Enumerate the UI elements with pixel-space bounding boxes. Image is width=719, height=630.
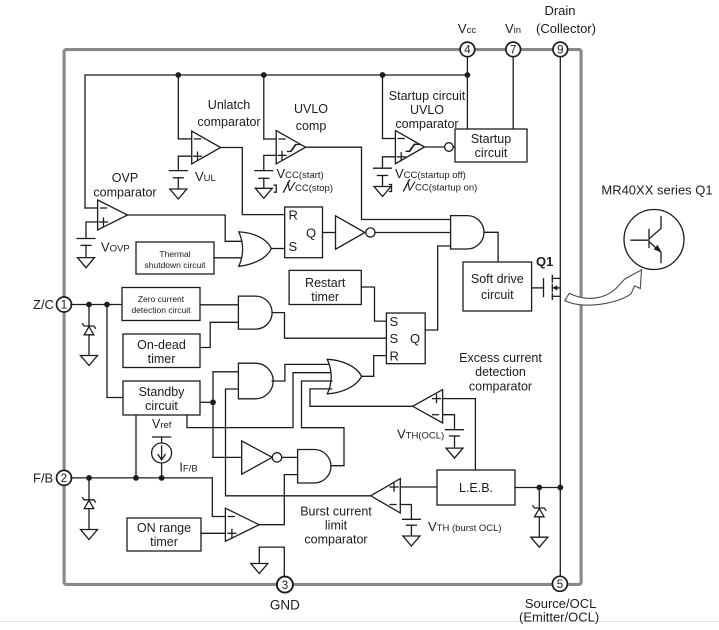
svg-text:GND: GND [270, 598, 300, 613]
wire F/B line [71, 477, 212, 479]
inverter NOT2 [242, 441, 282, 474]
and-gate AND2 [238, 363, 273, 399]
svg-text:Source/OCL: Source/OCL [525, 596, 597, 611]
svg-text:S: S [390, 331, 399, 346]
svg-text:comparator: comparator [93, 186, 156, 200]
junction F/B current source [159, 475, 165, 481]
comparator U-unlatch [178, 75, 260, 171]
zero current detection circuit block [122, 288, 200, 321]
label burst current limit comparator [300, 505, 372, 547]
svg-text:Q1: Q1 [536, 254, 553, 269]
wire latch1 Q to NOT1 [323, 232, 336, 234]
thermal shutdown circuit block [136, 242, 214, 274]
and-gate AND4 [451, 216, 484, 249]
wire LEB output to source line [515, 487, 560, 489]
svg-text:Vref: Vref [152, 417, 172, 431]
svg-text:2: 2 [61, 473, 67, 485]
wire zero current output to AND1 [200, 304, 238, 306]
wire AND4 output to soft drive [484, 232, 498, 262]
page edge artifact line [0, 621, 719, 623]
svg-text:Z/C: Z/C [33, 297, 54, 312]
svg-text:Q: Q [306, 225, 316, 240]
svg-text:timer: timer [148, 352, 176, 366]
svg-text:Soft drive: Soft drive [471, 272, 524, 286]
junction bus-unlatch [175, 72, 181, 78]
junction LEB zener [536, 485, 542, 491]
ground under VTH(burst) [403, 536, 420, 546]
svg-text:(Emitter/OCL): (Emitter/OCL) [519, 610, 599, 625]
svg-text:F/B: F/B [33, 470, 53, 485]
ground under VTH(OCL) [446, 448, 463, 458]
pin 3 GND [270, 577, 300, 613]
comparator U-excess (left pointing) [413, 390, 443, 423]
wire OVP output to OR1 input1 [128, 215, 243, 241]
standby circuit block [123, 381, 200, 415]
external transistor circle [624, 210, 684, 270]
ground under VCC(startup off) [374, 187, 391, 197]
svg-text:UVLO: UVLO [294, 102, 328, 116]
comparator U-burst (left pointing) [371, 479, 401, 513]
svg-text:comparator: comparator [469, 380, 532, 394]
svg-text:Zero current: Zero current [138, 294, 185, 304]
svg-text:timer: timer [311, 290, 339, 304]
svg-text:Standby: Standby [139, 385, 186, 399]
wire standby node vertical to AND2 and NOT2 [212, 372, 214, 458]
label VCC(startup on) [390, 179, 478, 194]
wire pin7 stem [512, 55, 514, 129]
wire to AND2 input1 [213, 371, 238, 373]
wire OR2 output to latch2 R [362, 356, 387, 377]
svg-text:Unlatch: Unlatch [208, 98, 250, 112]
wire excess plus to LEB top [443, 399, 476, 470]
pin 4 Vcc [458, 21, 476, 57]
junction bus-startup-comp [380, 72, 386, 78]
latch U-latch1 [285, 207, 323, 258]
junction source line [557, 485, 563, 491]
zener diode on Z/C [83, 305, 96, 356]
svg-text:Burst current: Burst current [300, 505, 372, 519]
svg-text:Q: Q [410, 331, 420, 346]
ground under source zener [531, 537, 548, 547]
reference VTH(OCL) battery [446, 430, 464, 448]
svg-text:Restart: Restart [305, 276, 346, 290]
svg-text:comp: comp [296, 119, 327, 133]
svg-text:R: R [289, 208, 298, 223]
and-gate AND1 [238, 296, 272, 329]
svg-text:circuit: circuit [481, 288, 514, 302]
svg-text:Drain: Drain [544, 3, 575, 18]
wire burst comparator minus to VTH [400, 505, 411, 520]
svg-text:timer: timer [150, 535, 178, 549]
wire drain-source line pin9 to pin5 [559, 55, 561, 577]
current source IF/B [152, 437, 172, 478]
svg-text:circuit: circuit [475, 146, 508, 160]
wire standby output node [200, 401, 213, 403]
wire latch2 Q to AND4 input3 [425, 246, 450, 330]
svg-text:comparator: comparator [197, 115, 260, 129]
wire Vcc top bus [85, 75, 467, 208]
latch U-latch2 [386, 313, 425, 364]
wire restart output to latch2 S1 [361, 287, 386, 321]
svg-text:S: S [289, 239, 298, 254]
svg-text:4: 4 [464, 45, 471, 57]
wire NOT1 output to AND4 input2 [375, 232, 451, 234]
wire F/B to burst ON comparator minus [212, 478, 225, 517]
svg-text:1: 1 [61, 300, 67, 312]
svg-text:UVLO: UVLO [410, 103, 444, 117]
ground under Z/C zener [81, 356, 98, 366]
reference VTH(burst) battery [403, 519, 421, 536]
svg-text:detection: detection [475, 365, 526, 379]
wire OR1 output to latch1 S [271, 248, 284, 250]
IC package border [64, 50, 581, 585]
wire NOT2 output to AND3 input1 [282, 456, 298, 458]
reference VCC(startup off) battery [374, 168, 392, 186]
svg-text:MR40XX series Q1: MR40XX series Q1 [601, 183, 712, 198]
ground under VCC(start) [255, 188, 272, 198]
svg-text:limit: limit [325, 519, 348, 533]
and-gate AND3 [298, 450, 331, 484]
wire onrange output to AND3 input2 [259, 475, 298, 525]
restart timer block [289, 270, 361, 304]
svg-text:Startup circuit: Startup circuit [389, 89, 466, 103]
junction standby output [210, 399, 216, 405]
on-dead timer block [123, 334, 200, 368]
svg-text:L.E.B.: L.E.B. [459, 481, 493, 495]
junction F/B zener [86, 475, 92, 481]
wire ON range timer to comparator plus [201, 532, 225, 534]
pin 1 Z/C [33, 297, 72, 312]
svg-text:S: S [390, 314, 399, 329]
svg-text:On-dead: On-dead [137, 338, 186, 352]
zener diode on source [533, 488, 546, 538]
soft drive circuit block [463, 262, 532, 311]
junction bus-uvlo [261, 72, 267, 78]
zener diode on F/B [83, 478, 96, 530]
junction Z/C standby branch [104, 302, 110, 308]
pin 7 Vin [505, 21, 521, 57]
junction Z/C zener [86, 302, 92, 308]
comparator U-UVLO [264, 75, 328, 171]
svg-text:comparator: comparator [395, 117, 458, 131]
wire excess minus to VTH(OCL) [443, 415, 455, 430]
transistor Q1 mosfet [532, 275, 561, 299]
ground under VOVP [78, 258, 95, 268]
wire Z/C to zero current box [71, 304, 122, 306]
comparator U-OVP [85, 171, 157, 239]
label excess current detection comparator [459, 351, 542, 394]
svg-text:circuit: circuit [145, 399, 178, 413]
reference VCC(start) battery [255, 171, 273, 189]
ground under VUL [170, 189, 187, 199]
svg-text:5: 5 [557, 579, 563, 591]
wire AND2 output to OR2 input1 [272, 364, 332, 381]
label VCC(stop) [274, 179, 333, 194]
svg-text:CC(startup on): CC(startup on) [415, 183, 477, 194]
wire burst output to AND2 input2 [226, 389, 371, 496]
startup circuit block [455, 129, 527, 162]
pin 5 Source/OCL [519, 576, 599, 624]
junction bus-pin4 [465, 72, 471, 78]
comparator U-onrange [225, 508, 259, 541]
ground under F/B zener [81, 530, 98, 540]
wire UVLO output to AND4 input1 [306, 147, 451, 219]
pin 2 F/B [33, 470, 72, 485]
or-gate OR1 [239, 232, 271, 266]
svg-text:IF/B: IF/B [179, 461, 197, 475]
wire AND1 output to latch2 S2 [272, 313, 386, 339]
L.E.B. block [437, 470, 515, 505]
svg-text:R: R [390, 348, 399, 363]
svg-text:detection circuit: detection circuit [131, 305, 191, 315]
svg-text:Thermal: Thermal [159, 249, 190, 259]
wire Z/C branch to standby input [107, 305, 123, 398]
svg-text:9: 9 [557, 45, 563, 57]
wire AND3 output to OR2 input3 [302, 381, 345, 466]
or-gate OR2 [327, 359, 361, 394]
wire excess output to OR2 input4 [310, 389, 413, 406]
svg-text:3: 3 [282, 580, 288, 592]
junction F/B standby [133, 475, 139, 481]
ON range timer block [127, 518, 201, 551]
wire on-dead output to AND1 input2 [200, 322, 238, 347]
curved arrow to external transistor [565, 270, 642, 305]
svg-text:CC(stop): CC(stop) [295, 183, 333, 194]
pin 9 Drain [536, 3, 596, 57]
svg-text:comparator: comparator [304, 533, 367, 547]
svg-text:Startup: Startup [471, 132, 511, 146]
wire pin4 stem [466, 55, 468, 129]
reference VUL battery [169, 171, 187, 189]
ground hook to pin3 [251, 547, 284, 577]
svg-text:(Collector): (Collector) [536, 21, 596, 36]
svg-text:ON range: ON range [137, 521, 191, 535]
wire unlatch output to latch1 R [221, 148, 285, 215]
wire standby bottom to F/B line [135, 415, 137, 478]
wire to NOT2 input [213, 456, 242, 458]
svg-text:shutdown circuit: shutdown circuit [145, 260, 207, 270]
wire thermal output to OR1 input2 [214, 257, 243, 259]
svg-text:7: 7 [510, 45, 516, 57]
svg-text:Excess current: Excess current [459, 351, 542, 365]
svg-text:OVP: OVP [112, 171, 138, 185]
inverter NOT1 [336, 216, 376, 249]
reference VOVP battery [77, 239, 95, 258]
wire standby bottom to OR2 input2 [187, 373, 332, 428]
transistor symbol inside circle [631, 217, 662, 263]
wire LEB to burst comparator plus [400, 486, 437, 488]
comparator U-startup-UVLO [383, 75, 466, 168]
